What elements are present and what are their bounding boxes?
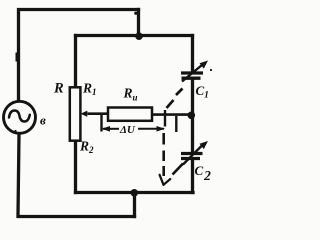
tick: right dimension tick xyxy=(164,110,166,127)
wire: bridge left branch upper xyxy=(74,36,77,88)
capacitor C2 plates xyxy=(181,154,203,159)
tick: stub below middle wire xyxy=(175,116,177,132)
wire: outer top horizontal xyxy=(19,10,139,101)
svg-text:в: в xyxy=(40,113,46,128)
AC source sine symbol xyxy=(9,111,30,122)
wire: bridge right branch below C2 xyxy=(191,161,194,193)
wire: bridge top horizontal xyxy=(76,34,193,37)
node: junction middle right xyxy=(188,112,196,120)
wire: bridge left branch lower xyxy=(74,141,77,193)
dashed pointer arrowhead (open V) xyxy=(160,175,171,185)
wire: outer bottom connector up to bridge bottom xyxy=(133,193,136,217)
tick: left dimension tick xyxy=(100,113,102,132)
wire: outer top connector down to bridge top xyxy=(137,10,140,36)
node: top outer corner small dot xyxy=(134,12,137,15)
wire: small blip on outer left wire xyxy=(15,53,17,62)
wire: bridge right branch between C1 and C2 xyxy=(191,80,194,152)
dashed vertical pointer line xyxy=(162,133,165,176)
speck near C1 arrow xyxy=(210,69,212,71)
resistor R1/R2 potentiometer body xyxy=(70,87,81,140)
AC source speck inside circle xyxy=(14,130,16,132)
wire: Ru to right branch xyxy=(152,113,191,116)
svg-text:R: R xyxy=(53,81,64,97)
capacitor C2 variable arrow xyxy=(183,146,202,165)
wire: bridge right branch above C1 xyxy=(191,36,194,72)
dashed leader to C2 arrow xyxy=(173,164,184,175)
wire: outer bottom from source down and right xyxy=(18,135,135,217)
svg-text:ΔU: ΔU xyxy=(119,124,136,136)
AC source G1 circle xyxy=(4,101,36,133)
node: junction bridge bottom xyxy=(131,189,139,197)
capacitor C1 plates xyxy=(181,73,203,78)
dimension line ΔU with arrowheads xyxy=(102,126,166,132)
potentiometer wiper arrow xyxy=(81,111,88,117)
resistor Ru body xyxy=(108,108,152,121)
wire: wiper to Ru xyxy=(88,112,109,115)
node: junction bridge top xyxy=(135,32,143,40)
wire: bridge bottom horizontal xyxy=(76,191,194,194)
dashed leader to C1 arrow xyxy=(167,89,183,109)
capacitor C1 variable arrow xyxy=(182,65,202,82)
